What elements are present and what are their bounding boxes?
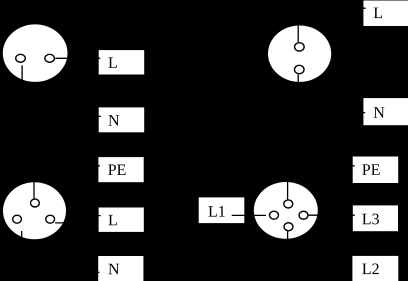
label box L2 (right column) [352, 256, 398, 281]
connector socket P2 (3-pin, bottom-left) body [3, 182, 66, 239]
wire P2 left pin to box N [22, 231, 100, 272]
wire P2 right pin to box L [55, 216, 100, 223]
wire P3 bottom pin to box N [298, 74, 365, 112]
label text L2 (right column) [362, 264, 378, 275]
label box N (right middle) [363, 98, 408, 125]
wire P4 bottom pin stub [287, 231, 289, 239]
label box N (left column 5) [98, 256, 143, 281]
wire P2 top pin to box PE [34, 166, 100, 199]
pin P4.L3 (right) [299, 211, 308, 219]
label text N (left column 2) [108, 115, 119, 125]
wire P4 top pin to box PE [288, 166, 355, 200]
wire P4 right pin to box L3 [309, 214, 355, 216]
label box PE (right column) [353, 157, 399, 184]
label text L (right top) [374, 8, 382, 18]
wire box L1 to P4 left pin [232, 214, 266, 216]
label text PE (left column 3) [108, 165, 125, 175]
wire P1 left pin to box N [22, 65, 101, 116]
pin P4.L1 (left) [269, 211, 278, 219]
label box L (left column 4) [99, 208, 144, 232]
pin P1.N (right) [45, 54, 55, 62]
label box L (right top) [363, 1, 408, 27]
label box L1 (middle) [199, 197, 245, 223]
label box L3 (right column) [353, 205, 398, 231]
pin P2.L (right) [46, 215, 55, 223]
label text L (left column 1) [108, 57, 116, 67]
label box PE (left column 3) [98, 157, 143, 182]
connector socket P4 (4-pin, bottom-right) body [254, 182, 318, 239]
pin P2.N (left) [13, 215, 22, 223]
label box N (left column 2) [99, 107, 145, 132]
label text N (right middle) [374, 107, 385, 117]
label text PE (right column) [362, 164, 379, 174]
pin P1.L (left) [16, 54, 26, 62]
pin P3.N (bottom) [294, 65, 304, 73]
label text L1 (middle) [208, 206, 224, 217]
wire P3 top pin to box L [298, 8, 366, 42]
wire P1 right pin to box L [56, 57, 101, 59]
pin P2.PE (top) [31, 199, 40, 207]
pin P4.PE (top) [284, 200, 293, 208]
label box L (left column 1) [99, 50, 145, 74]
connector socket P3 (2-pin, top-right) body [268, 26, 331, 82]
pin P4.L2 (bottom) [284, 223, 293, 231]
pin P3.L (top) [295, 43, 305, 51]
label text N (left column 5) [108, 264, 119, 274]
label text L (left column 4) [108, 215, 116, 225]
label text L3 (right column) [362, 214, 379, 225]
connector socket P1 (2-pin, top-left) body [3, 24, 68, 82]
